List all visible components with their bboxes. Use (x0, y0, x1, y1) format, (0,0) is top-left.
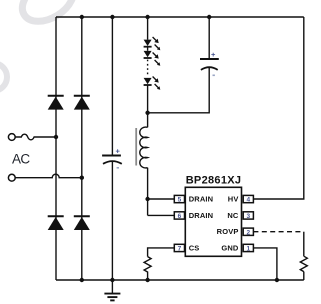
svg-text:4: 4 (246, 197, 250, 204)
pin 6 box (174, 212, 184, 219)
inductor L1 (140, 127, 148, 168)
diode D2 (74, 96, 90, 110)
svg-text:NC: NC (227, 211, 239, 220)
op-amp U1 BP2861XJ body (185, 187, 241, 256)
LED LED1 (144, 37, 161, 50)
wire pin5 stub (148, 198, 175, 200)
node AC live bridge (54, 135, 58, 139)
wire right HV vertical (253, 17, 303, 199)
node bottom rail x112 (110, 278, 114, 282)
wire bridge vertical 1 (55, 17, 57, 280)
wire bottom rail (56, 279, 304, 281)
wire LED dotted (147, 60, 149, 77)
wire pin6 stub (148, 214, 175, 216)
wire pin7 CS stub (148, 248, 175, 257)
svg-text:+: + (116, 147, 121, 156)
svg-text:CS: CS (189, 243, 200, 252)
wire AC neutral with hop (15, 174, 82, 177)
resistor R1 (144, 257, 151, 280)
svg-text:ROVP: ROVP (217, 227, 239, 236)
svg-text:5: 5 (178, 197, 182, 204)
node AC neutral bridge (80, 176, 84, 180)
wire cap1 vertical top (111, 17, 113, 155)
node top rail x112 (110, 15, 114, 19)
svg-text:7: 7 (178, 246, 182, 253)
wire LED interlink (147, 47, 149, 51)
watermark ellipse left (0, 63, 7, 91)
watermark ellipse top (0, 0, 81, 91)
wire bridge vertical 2 (81, 17, 83, 280)
node bottom rail x82 (80, 278, 84, 282)
wire cap2 top (208, 17, 210, 59)
node top rail x148 (145, 15, 149, 19)
node inductor drain junction (145, 197, 149, 201)
svg-text:2: 2 (246, 229, 250, 236)
pin 7 box (174, 244, 184, 251)
svg-text:AC: AC (12, 152, 30, 167)
node bottom rail x148 (145, 278, 149, 282)
pin 2 box (243, 228, 253, 235)
wire ROVP vertical to R2 (303, 232, 305, 257)
svg-text:HV: HV (228, 195, 239, 204)
wire ROVP dashed (253, 231, 303, 233)
wire LED3 to node (147, 85, 149, 127)
svg-text:3: 3 (246, 213, 250, 220)
node bottom rail x277 (275, 278, 279, 282)
diode D4 (74, 216, 90, 230)
LED LED3 (144, 77, 161, 90)
LED LED2 (144, 51, 161, 66)
terminal AC live (8, 134, 15, 141)
wire pin1 GND stub (253, 248, 277, 280)
wire R2 bottom lead (303, 272, 305, 280)
wire cap1 vertical bottom (111, 162, 113, 280)
diode D3 (48, 216, 64, 230)
terminal AC neutral (8, 174, 15, 181)
svg-text:GND: GND (221, 243, 239, 252)
pin 3 box (243, 212, 253, 219)
node top rail x82 (80, 15, 84, 19)
svg-text:BP2861XJ: BP2861XJ (186, 175, 242, 187)
ground (104, 280, 120, 300)
resistor R2 (300, 256, 307, 271)
capacitor C2 (200, 50, 219, 76)
wire AC live (15, 134, 56, 140)
svg-text:+: + (211, 50, 216, 59)
svg-text:DRAIN: DRAIN (189, 195, 214, 204)
svg-text:6: 6 (178, 213, 182, 220)
pin 5 box (174, 195, 184, 202)
svg-text:DRAIN: DRAIN (189, 211, 214, 220)
pin 1 box (243, 244, 253, 251)
diode D1 (48, 96, 64, 110)
wire LED branch top (147, 17, 149, 40)
svg-text:1: 1 (246, 246, 250, 253)
capacitor C1 (102, 147, 122, 169)
pin 4 box (243, 195, 253, 202)
node top rail x209 (207, 15, 211, 19)
wire top rail (56, 16, 304, 18)
wire inductor bottom to node (147, 168, 149, 216)
wire node to cap2 bottom (148, 68, 210, 113)
inductor core bar (135, 128, 137, 166)
node LED cap junction (145, 111, 149, 115)
